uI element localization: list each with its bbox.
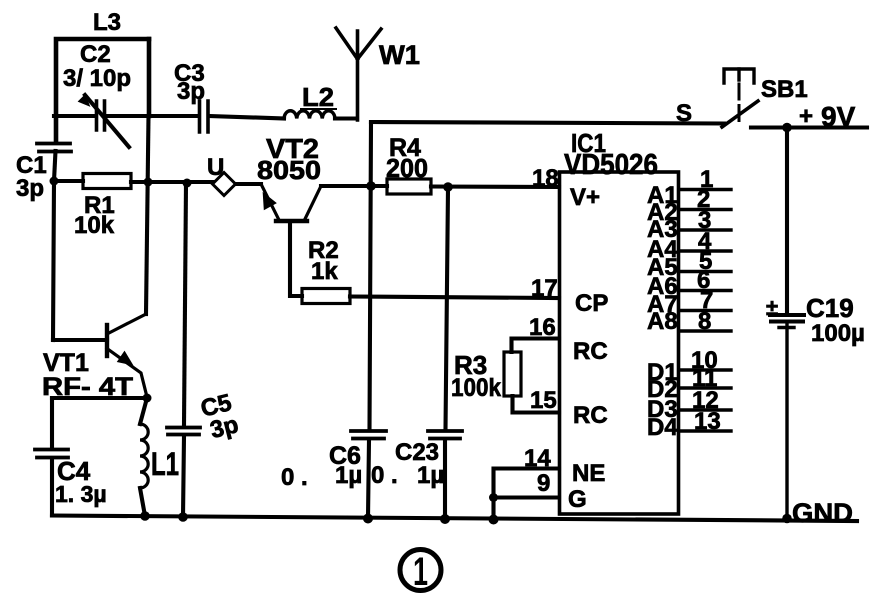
wire C5 bottom lead	[183, 436, 184, 517]
inductor L2	[284, 111, 335, 119]
node C23 ground junction	[440, 514, 450, 524]
wire L2 to antenna	[335, 116, 357, 120]
svg-text:S: S	[676, 100, 692, 127]
wire vertical rail A (supply/C6)	[368, 122, 371, 518]
capacitor C4	[35, 450, 68, 458]
resistor R1	[83, 174, 131, 189]
capacitor C1	[37, 144, 71, 152]
wire vertical rail B (C23)	[445, 188, 448, 518]
svg-text:100k: 100k	[451, 374, 501, 402]
resistor R4	[387, 179, 431, 194]
pushbutton SB1	[724, 69, 754, 83]
inductor L1	[140, 424, 148, 488]
node pin14 ground junction	[489, 515, 499, 525]
pin 5 stub	[679, 270, 731, 273]
node C19 ground junction	[782, 514, 792, 524]
pin 1 stub	[679, 188, 731, 191]
node R1/collector junction	[144, 178, 153, 187]
wire C4 bottom lead	[50, 459, 54, 516]
svg-text:1k: 1k	[311, 258, 338, 285]
resistor R3	[504, 352, 521, 396]
wire top supply rail to switch	[371, 122, 724, 124]
wire U to VT2 emitter	[236, 182, 262, 186]
svg-text:L3: L3	[93, 9, 121, 36]
capacitor C3	[200, 101, 209, 132]
capacitor C5	[167, 428, 200, 435]
svg-text:V+: V+	[570, 184, 600, 211]
svg-text:RF- 4T: RF- 4T	[42, 373, 133, 401]
svg-text:SB1: SB1	[761, 76, 808, 103]
svg-text:L1: L1	[151, 446, 179, 482]
wire C5 top lead	[184, 183, 186, 425]
svg-text:1: 1	[413, 550, 428, 594]
wire R3 to pin 15	[513, 396, 560, 413]
node +9V junction	[782, 123, 792, 133]
wire VT1 collector up to tank	[146, 116, 149, 314]
svg-text:D4: D4	[647, 414, 678, 441]
node L1 ground junction	[140, 511, 150, 521]
capacitor C2 (variable)	[97, 101, 105, 130]
node C6 ground junction	[363, 514, 373, 524]
wire pin 9	[494, 495, 560, 499]
label C5	[198, 389, 241, 445]
pin 13 stub	[679, 429, 731, 432]
svg-text:U: U	[207, 154, 224, 181]
node C5 ground junction	[178, 512, 188, 522]
wire tank bottom to C2 plate	[54, 114, 94, 118]
wire ground rail	[52, 516, 857, 522]
node VT1 emitter junction	[143, 394, 152, 403]
transistor VT2	[261, 184, 279, 220]
wire left vertical below node A	[53, 181, 54, 340]
capacitor C23	[428, 431, 462, 439]
resistor R2	[302, 289, 350, 304]
svg-text:G: G	[568, 486, 587, 513]
node R4 output junction	[443, 182, 453, 192]
node A junction	[50, 177, 59, 186]
pin 6 stub	[679, 289, 731, 292]
transistor VT1	[105, 325, 109, 356]
svg-text:0 .: 0 .	[281, 464, 308, 491]
wire +9V rail	[751, 125, 867, 129]
wire VT2 collector to node	[321, 184, 371, 188]
pin 10 stub	[679, 368, 731, 371]
svg-text:0 .: 0 .	[371, 462, 398, 489]
antenna W1	[336, 28, 381, 120]
svg-text:3p: 3p	[16, 175, 44, 202]
wire C19 top lead	[785, 128, 789, 314]
svg-text:16: 16	[529, 314, 556, 341]
svg-text:A8: A8	[647, 308, 678, 335]
wire C4 top lead	[50, 398, 54, 447]
wire R2 to pin 17	[350, 297, 559, 299]
pin 4 stub	[679, 249, 731, 252]
IC U1 VD5026 outline	[560, 172, 679, 514]
svg-text:C2: C2	[80, 41, 111, 68]
svg-text:15: 15	[530, 387, 557, 414]
wire pin 14	[494, 469, 560, 520]
svg-text:3p: 3p	[177, 78, 205, 105]
svg-text:100µ: 100µ	[811, 320, 865, 347]
capacitor C19	[770, 315, 804, 322]
svg-text:200: 200	[386, 153, 428, 183]
svg-text:17: 17	[531, 275, 558, 302]
svg-text:3/ 10p: 3/ 10p	[63, 65, 131, 92]
wire RF-4T link	[52, 396, 147, 400]
svg-text:10k: 10k	[74, 212, 115, 239]
wire VT1 base wire	[53, 338, 107, 342]
node VT2/rail junction	[366, 181, 376, 191]
svg-text:9: 9	[537, 470, 550, 497]
wire L1 to ground rail	[140, 488, 145, 516]
svg-text:1µ: 1µ	[417, 462, 444, 489]
wire R1 to U	[131, 180, 213, 184]
svg-text:18: 18	[532, 165, 559, 192]
wire pin 16 to R3	[512, 339, 560, 353]
svg-text:+: +	[799, 103, 813, 130]
svg-text:1µ: 1µ	[335, 462, 362, 489]
svg-text:RC: RC	[573, 338, 608, 365]
svg-text:9V: 9V	[821, 101, 856, 132]
wire C19 bottom lead	[779, 323, 794, 518]
pin 11 stub	[679, 386, 731, 389]
svg-text:13: 13	[694, 408, 721, 435]
svg-text:GND: GND	[792, 498, 853, 528]
capacitor C6	[351, 431, 386, 439]
svg-text:CP: CP	[575, 290, 608, 317]
svg-text:RC: RC	[573, 402, 608, 429]
svg-text:±: ±	[766, 295, 778, 320]
wire node to R4	[371, 184, 387, 188]
wire node A to R1	[54, 179, 83, 183]
wire C3 to L2	[210, 116, 284, 119]
figure number circle 1	[400, 550, 441, 595]
pin 7 stub	[679, 309, 731, 312]
wire VT2 base down	[290, 222, 302, 296]
node C5 top junction	[183, 179, 192, 188]
pin 8 stub	[679, 329, 731, 332]
svg-text:8050: 8050	[257, 155, 321, 185]
pin 3 stub	[679, 228, 731, 231]
inductor L3 tank box	[56, 39, 149, 141]
svg-text:VD5026: VD5026	[564, 149, 658, 181]
node pin9 junction	[489, 493, 498, 502]
svg-text:8: 8	[698, 308, 711, 335]
svg-text:L2: L2	[302, 82, 334, 112]
wire R4 to pin 18	[431, 184, 559, 189]
svg-text:C19: C19	[806, 293, 854, 323]
svg-text:NE: NE	[572, 460, 605, 487]
wire C1 to node A	[54, 151, 56, 181]
L2 underline mark	[300, 108, 337, 110]
svg-text:1. 3µ: 1. 3µ	[55, 481, 107, 507]
node U diamond	[213, 173, 236, 196]
wire C2 to C3	[107, 114, 197, 118]
svg-text:14: 14	[524, 445, 551, 472]
pin 12 stub	[679, 408, 731, 411]
wire emitter node to L1	[140, 398, 147, 424]
svg-text:W1: W1	[379, 40, 420, 70]
pin 2 stub	[679, 208, 731, 211]
